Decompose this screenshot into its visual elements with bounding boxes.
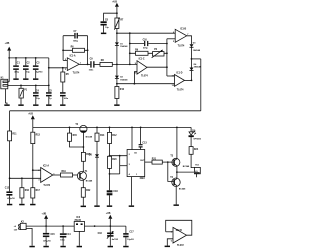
- svg-text:R24: R24: [194, 148, 199, 151]
- wire R13 to IC2-A inverting: [32, 144, 34, 171]
- node R5 tap: [62, 67, 64, 69]
- svg-text:BC548: BC548: [183, 165, 190, 168]
- svg-text:R12: R12: [112, 135, 117, 137]
- svg-text:100n: 100n: [89, 70, 94, 72]
- wire K1 pin1: [8, 81, 9, 83]
- svg-text:R17: R17: [36, 190, 41, 192]
- wire IC2 bottom pin to ground: [130, 177, 132, 206]
- op-amp IC2-A: [38, 164, 55, 187]
- resistor R6: [63, 47, 88, 53]
- svg-text:TL072: TL072: [177, 245, 184, 247]
- wire R10 to ground: [116, 99, 118, 105]
- wire R19 to T1 base: [73, 174, 78, 176]
- wire supply rail y57.9: [9, 57, 49, 59]
- op-amp IC1-C: [134, 59, 148, 78]
- resistor R5: [61, 68, 70, 92]
- wire link to R20 bottom: [110, 173, 120, 175]
- wire T3 emitter to T4 collector: [176, 166, 178, 179]
- ground R16: [19, 204, 24, 206]
- wire IC2-B noninverting to ground: [167, 239, 173, 246]
- resistor R18: [81, 147, 91, 161]
- node signal junctions: [20, 85, 50, 87]
- svg-text:100n: 100n: [64, 98, 69, 100]
- ground D8: [94, 205, 99, 207]
- wire base link to T4: [168, 162, 174, 181]
- node C14 tap: [62, 225, 64, 227]
- LED D9: [189, 127, 202, 140]
- wire K2 pin2 to ground: [26, 228, 32, 245]
- ground C15: [43, 246, 48, 248]
- wire IC2 pin top vertical: [131, 127, 133, 149]
- connector K1 microphone input: [1, 77, 8, 88]
- ground C6: [60, 104, 65, 106]
- ground IC2: [129, 205, 134, 207]
- ground C4: [33, 104, 38, 106]
- wire D8 to ground: [96, 157, 98, 205]
- potentiometer P1: [19, 85, 28, 104]
- svg-text:BC548: BC548: [86, 135, 93, 138]
- wire link to pin3: [120, 165, 127, 167]
- svg-text:TL074: TL074: [177, 88, 184, 91]
- wire supply rail y226.1: [26, 225, 74, 227]
- ground P1: [18, 104, 23, 106]
- wire D2 to R10: [116, 79, 118, 87]
- op-amp IC2-B: [171, 227, 187, 247]
- wire noninverting branch to IC1-A: [49, 67, 68, 69]
- capacitor C15: [43, 226, 56, 246]
- wire +UB stem regulated: [109, 219, 111, 226]
- resistor R13: [31, 127, 41, 143]
- svg-text:R11: R11: [12, 133, 17, 135]
- svg-text:R14: R14: [100, 134, 105, 137]
- svg-text:R16: R16: [25, 190, 30, 192]
- svg-text:470µ: 470µ: [14, 71, 19, 74]
- ground IC3: [77, 246, 82, 248]
- resistor R9: [130, 49, 167, 55]
- resistor R19: [61, 171, 73, 177]
- svg-text:BC548: BC548: [179, 187, 186, 190]
- node R16 tap: [21, 177, 23, 179]
- ground C5: [46, 104, 51, 106]
- transistor T2: [75, 124, 92, 138]
- node feedback R6 left: [62, 49, 64, 51]
- capacitor C7: [63, 31, 88, 42]
- svg-text:4093: 4093: [140, 177, 146, 180]
- wire noninverting line to IC1-D: [117, 83, 175, 85]
- ground IC2-B: [165, 246, 170, 248]
- node inverting tap: [32, 169, 34, 171]
- node right vertical junctions: [166, 43, 168, 69]
- svg-text:R15: R15: [73, 135, 78, 137]
- svg-text:C18: C18: [113, 191, 118, 193]
- node inverting line tap: [129, 32, 131, 34]
- ground K1: [4, 104, 9, 106]
- svg-text:470µ/16: 470µ/16: [43, 240, 51, 243]
- node rail junctions: [8, 57, 36, 59]
- transistor T4: [170, 176, 186, 191]
- wire feedback right vertical: [87, 36, 89, 65]
- svg-text:IC1-B: IC1-B: [180, 28, 186, 30]
- resistor R22: [81, 188, 91, 198]
- node bias branch: [48, 67, 50, 69]
- wire C8 branch: [104, 13, 117, 21]
- resistor R14: [95, 127, 105, 141]
- wire IC1-C feedback left vertical: [129, 33, 131, 64]
- transistor T1: [77, 171, 93, 183]
- resistor R11: [8, 131, 18, 141]
- node base split: [167, 161, 169, 163]
- trimmer P2: [152, 49, 164, 58]
- wire regulator output rail: [85, 225, 126, 227]
- wire IC2 output pin: [145, 161, 152, 163]
- svg-text:+UB: +UB: [28, 114, 33, 116]
- svg-text:IC2-A: IC2-A: [43, 164, 49, 167]
- diode D1: [115, 42, 128, 48]
- resistor R16: [20, 178, 30, 198]
- wire long output line y110.8: [10, 110, 201, 112]
- svg-text:1N4148: 1N4148: [194, 65, 202, 68]
- wire IC1-B output to D3: [187, 36, 192, 45]
- wire IC1-A output: [79, 63, 90, 65]
- svg-text:1N4148: 1N4148: [120, 45, 128, 48]
- ground R22: [81, 206, 86, 208]
- capacitor C13: [139, 127, 148, 149]
- wire +UB stem to rail and K1 pin: [8, 51, 10, 82]
- svg-text:IC1-A: IC1-A: [70, 54, 76, 57]
- svg-text:IC1-D: IC1-D: [176, 72, 182, 74]
- svg-text:C14: C14: [66, 233, 71, 236]
- svg-text:+UB: +UB: [42, 213, 47, 215]
- wire R12 to R20: [109, 144, 111, 157]
- wire K1 sleeve to ground: [6, 89, 8, 105]
- trimmer R7: [114, 17, 124, 29]
- ground C16: [108, 246, 113, 248]
- node C8 tap: [116, 12, 118, 14]
- capacitor C3: [33, 58, 43, 79]
- ground K2: [29, 246, 34, 248]
- svg-text:4n7/63: 4n7/63: [112, 238, 119, 241]
- svg-text:1N4148: 1N4148: [120, 78, 128, 81]
- wire R20 to C18: [109, 168, 111, 190]
- svg-text:BC548: BC548: [86, 179, 93, 182]
- node C16 tap: [109, 225, 111, 227]
- wire K1 signal pin2: [8, 84, 49, 86]
- node plus line tap: [116, 83, 118, 85]
- wire inverting line to IC1-B: [117, 32, 175, 34]
- power +UB arrow (middle section): [28, 114, 35, 120]
- svg-text:C13: C13: [142, 143, 147, 145]
- ground C12: [7, 204, 12, 206]
- svg-text:R13: R13: [36, 135, 41, 137]
- svg-text:TL074: TL074: [178, 45, 185, 48]
- capacitor C6: [60, 92, 69, 104]
- relay Re1: [194, 164, 200, 177]
- terminal bar T4: [174, 204, 179, 206]
- wire R22 ground stem: [82, 197, 84, 205]
- svg-text:680p: 680p: [73, 40, 78, 42]
- power +UB arrow (regulated): [106, 213, 113, 219]
- wire R24 to relay: [191, 154, 194, 167]
- svg-text:4µ7/63: 4µ7/63: [36, 71, 43, 74]
- wire IC1-C feedback right vertical: [166, 39, 168, 76]
- power +UB arrow (top left): [5, 43, 12, 50]
- wire IC1-C output: [147, 66, 167, 68]
- capacitor C5: [46, 90, 53, 104]
- wire R8 to IC1-C: [112, 63, 137, 65]
- node line tap y33.2: [116, 32, 118, 34]
- svg-text:470µ/16: 470µ/16: [7, 197, 15, 200]
- node output junction D4: [191, 80, 193, 82]
- svg-text:OUT: OUT: [140, 160, 145, 162]
- wire R14 to D8: [96, 141, 98, 154]
- resistor R21: [152, 159, 163, 165]
- node rail2 junctions: [69, 127, 178, 129]
- node crossing x116.9: [116, 64, 118, 66]
- resistor R17: [31, 188, 41, 198]
- svg-text:TL072: TL072: [43, 185, 50, 187]
- wire IC2-B inverting stub: [166, 231, 173, 233]
- resistor R10: [115, 87, 125, 99]
- wire R7 to D1: [116, 29, 118, 43]
- capacitor C17: [123, 226, 134, 246]
- wire middle rail y127.4: [33, 126, 191, 128]
- svg-text:R22: R22: [86, 190, 91, 192]
- svg-text:TL074: TL074: [73, 71, 80, 74]
- diode D3: [190, 43, 201, 52]
- capacitor C16: [98, 226, 119, 246]
- wire R16 ground stem: [21, 198, 23, 204]
- wire T3 collector to rail: [176, 127, 178, 158]
- capacitor C1: [13, 58, 20, 79]
- wire T1 emitter to R22: [82, 179, 84, 187]
- wire T4 emitter to terminal: [175, 186, 177, 204]
- op-amp IC1-D: [172, 72, 185, 91]
- node link tap: [119, 155, 121, 157]
- node feedback tap x129.8: [129, 64, 131, 66]
- wire +UB stem to rail2: [32, 119, 34, 127]
- wire pin2 link: [110, 155, 128, 157]
- op-amp IC1-B: [173, 28, 189, 47]
- node C10 line left: [129, 43, 131, 45]
- node D3 bottom junction: [191, 58, 193, 60]
- resistor R20: [108, 156, 118, 168]
- node R9 line left: [129, 52, 131, 54]
- svg-text:SFH415: SFH415: [193, 137, 201, 140]
- capacitor C4: [33, 85, 41, 104]
- wire R13 lower to R17: [32, 170, 34, 188]
- wire to IC1-B noninverting: [167, 38, 175, 40]
- wire IC1-D inverting feed: [167, 75, 175, 77]
- capacitor C12: [5, 178, 16, 204]
- node IC1-A output: [87, 64, 89, 66]
- ground C1: [13, 78, 18, 80]
- wire left vertical into middle section: [9, 111, 11, 131]
- node rail junction: [94, 225, 96, 227]
- ground C8: [101, 33, 106, 35]
- node pin2 tap: [109, 155, 111, 157]
- wire D3 to junction: [191, 47, 193, 59]
- capacitor C14: [60, 226, 71, 246]
- connector K2 power input: [14, 222, 26, 232]
- svg-text:C17: C17: [129, 232, 134, 234]
- wire R17 ground stem: [32, 198, 34, 204]
- wire +UB stem: [45, 219, 47, 226]
- wire D1 to D2: [116, 45, 118, 75]
- capacitor C18: [107, 190, 119, 205]
- svg-text:C16: C16: [98, 233, 103, 235]
- power +UB arrow (bottom input): [42, 213, 49, 219]
- ground R10: [114, 104, 119, 106]
- diode D8: [89, 154, 99, 157]
- svg-text:C10: C10: [143, 39, 148, 41]
- svg-text:R20: R20: [112, 159, 117, 161]
- svg-text:1N4148: 1N4148: [193, 49, 201, 52]
- svg-text:12V: 12V: [14, 230, 18, 232]
- wire D9 to R24: [190, 136, 192, 147]
- ground C18: [107, 205, 112, 207]
- resistor R8: [100, 60, 112, 67]
- svg-text:IC1-C: IC1-C: [139, 59, 145, 61]
- op-amp IC2-B feedback box: [166, 220, 192, 235]
- capacitor C2: [23, 58, 30, 79]
- power +UB arrow (top middle): [112, 1, 119, 7]
- diode D2: [115, 76, 128, 82]
- resistor R12: [108, 127, 118, 143]
- svg-text:R19: R19: [62, 171, 67, 173]
- wire IC1-A inverting stub: [63, 59, 67, 61]
- svg-text:R21: R21: [152, 159, 157, 161]
- resistor R15: [68, 127, 78, 141]
- transistor T3: [170, 155, 190, 168]
- wire plus line y178.3: [10, 177, 41, 179]
- svg-text:+UB: +UB: [5, 43, 10, 45]
- ground C2: [23, 78, 28, 80]
- svg-text:+UB: +UB: [106, 213, 111, 215]
- diode D4: [190, 59, 202, 81]
- ground C14: [60, 246, 65, 248]
- wire R21 to T3 base: [162, 161, 173, 163]
- capacitor C8: [101, 20, 110, 33]
- wire regulator ground pin: [78, 231, 80, 245]
- svg-text:C15: C15: [51, 234, 56, 236]
- wire branch to relay: [177, 171, 195, 173]
- wire IC2-A output: [53, 174, 61, 176]
- ground R17: [30, 204, 35, 206]
- node IC1-C plus tap: [134, 83, 136, 85]
- wire R11 to plus node: [9, 141, 11, 179]
- capacitor C9: [89, 58, 100, 71]
- node T2 emitter junction: [83, 146, 85, 148]
- ground C17: [123, 246, 128, 248]
- wire IC1-D output: [185, 79, 192, 81]
- wire right edge vertical: [200, 59, 202, 111]
- svg-text:TL074: TL074: [141, 75, 148, 78]
- wire R15 to junction: [70, 141, 84, 147]
- wire inverting stub: [33, 169, 41, 171]
- op-amp IC1-A: [65, 54, 82, 74]
- wire feedback left vertical: [62, 36, 64, 61]
- node R20 bottom tap: [109, 173, 111, 175]
- wire T1 collector to R18: [82, 161, 84, 172]
- svg-text:470p: 470p: [143, 47, 148, 50]
- svg-text:+UB: +UB: [112, 1, 117, 3]
- wire T2 emitter down: [82, 132, 84, 147]
- wire IC1-C noninverting stub: [134, 72, 137, 84]
- node plus wire left: [9, 177, 11, 179]
- regulator IC3 78L05: [74, 217, 84, 231]
- svg-text:CD: CD: [134, 152, 137, 154]
- svg-text:10µ/63: 10µ/63: [127, 239, 134, 241]
- capacitor C10: [130, 39, 167, 49]
- wire +UB stem: [116, 7, 118, 18]
- ground C3: [33, 78, 38, 80]
- wire link vertical: [119, 156, 121, 174]
- node feedback R6 right: [87, 49, 89, 51]
- resistor R24: [189, 147, 199, 155]
- svg-text:R10: R10: [120, 89, 125, 91]
- wire junction right: [192, 58, 201, 60]
- svg-text:C12: C12: [5, 187, 10, 189]
- wire bias vertical x48.8: [48, 58, 50, 92]
- node relay branch: [176, 171, 178, 173]
- IC2 timer box: [127, 150, 145, 181]
- node C15 tap: [45, 225, 47, 227]
